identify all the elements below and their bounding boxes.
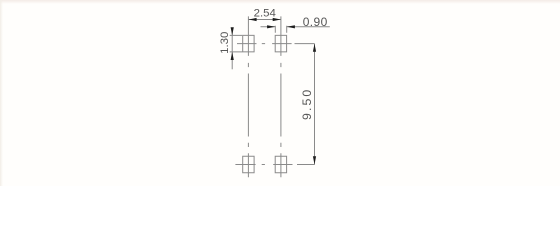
svg-text:9.50: 9.50 [300,88,314,120]
svg-text:0.90: 0.90 [303,15,328,29]
svg-text:1.30: 1.30 [219,32,231,54]
svg-text:2.54: 2.54 [254,7,276,19]
